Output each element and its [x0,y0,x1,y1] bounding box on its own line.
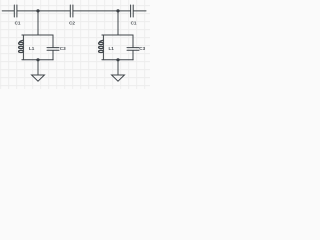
svg-text:C3: C3 [60,46,66,51]
wire C1 to C2 [17,10,70,12]
wire tank2 left branch [102,35,104,59]
wire C3b bottom [132,51,134,60]
wire tank2 top rail [102,35,133,47]
wire tank1 top rail [22,35,53,47]
wire tank2 bottom rail [102,59,133,61]
svg-text:L1: L1 [29,46,35,51]
node B [116,9,119,12]
node tank2 bottom [116,58,119,61]
wire C3 bottom [52,51,54,60]
capacitor C1 (right) [131,5,134,17]
wire tank1 bottom rail [22,59,53,61]
wire to ground 2 [117,60,119,75]
wire node B down [117,11,119,35]
wire C1b to output [134,10,147,12]
svg-text:C2: C2 [69,21,75,26]
svg-text:C1: C1 [131,21,137,26]
wire tank1 left branch [22,35,24,59]
ground 1 [32,75,45,81]
capacitor C3 [47,48,59,51]
capacitor C2 [70,5,73,17]
wire input to C1 [2,10,14,12]
node tank1 bottom [36,58,39,61]
inductor L1 (right) [99,40,104,52]
wire C2 to C1b [73,10,130,12]
capacitor C1 [14,5,17,17]
wire to ground 1 [37,60,39,75]
svg-text:C3: C3 [139,46,145,51]
svg-text:C1: C1 [15,21,21,26]
wire node A down [37,11,39,35]
node A [36,9,39,12]
svg-text:L1: L1 [109,46,115,51]
inductor L1 [19,40,24,52]
ground 2 [112,75,125,81]
capacitor C3 (right) [127,48,139,51]
